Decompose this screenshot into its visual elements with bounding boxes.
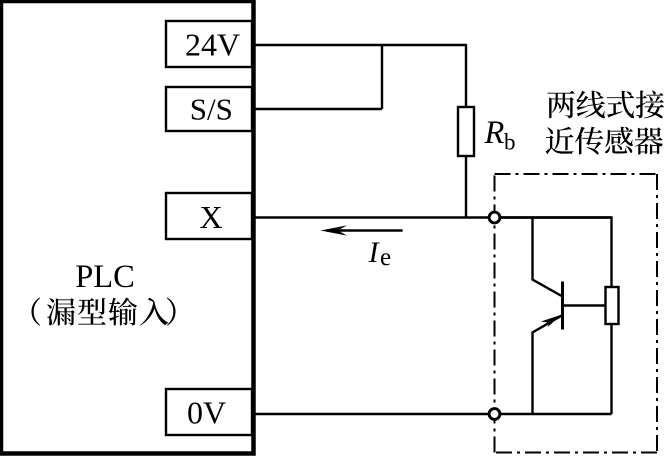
wire X horizontal <box>253 216 612 218</box>
node 0V junction circle <box>489 409 500 420</box>
transistor Q1 base bar <box>561 282 564 330</box>
svg-text:R: R <box>484 115 505 151</box>
svg-text:X: X <box>199 199 222 235</box>
svg-text:S/S: S/S <box>190 92 233 127</box>
transistor Q1 collector <box>533 218 563 297</box>
label (漏型输入) sink-type input <box>31 298 175 326</box>
terminal 24V box <box>166 21 252 67</box>
wire sensor top internal <box>495 218 612 288</box>
node X junction circle <box>489 212 500 223</box>
svg-text:PLC: PLC <box>75 259 135 295</box>
terminal X box <box>166 193 252 239</box>
transistor Q1 emitter with arrow <box>533 315 562 414</box>
current arrow Ie <box>321 225 403 235</box>
resistor Rb <box>458 107 474 156</box>
transistor Q1 base lead to internal resistor <box>563 304 606 306</box>
wire 24V down to Rb <box>465 44 467 107</box>
svg-text:b: b <box>504 130 516 155</box>
svg-text:0V: 0V <box>187 394 226 430</box>
wire S/S riser up to 24V wire <box>381 44 383 109</box>
terminal 0V box <box>166 389 252 435</box>
label Ie <box>368 236 392 271</box>
svg-text:e: e <box>380 244 391 271</box>
wire internal resistor to 0V wire <box>610 324 612 414</box>
label PLC <box>75 259 135 295</box>
resistor internal sensor <box>606 287 619 324</box>
sensor box dash-dot outline <box>495 174 658 453</box>
label 两线式接 / 近传感器 (two-wire proximity sensor) <box>546 90 664 154</box>
wire 0V horizontal <box>253 413 612 415</box>
svg-text:24V: 24V <box>185 27 240 63</box>
wire S/S horizontal <box>253 108 382 110</box>
wire 24V horizontal <box>253 44 466 46</box>
wire Rb down to X node <box>465 156 467 217</box>
terminal S/S box <box>166 87 252 131</box>
label Rb <box>484 115 516 155</box>
PLC U1 box outline <box>1 1 254 454</box>
